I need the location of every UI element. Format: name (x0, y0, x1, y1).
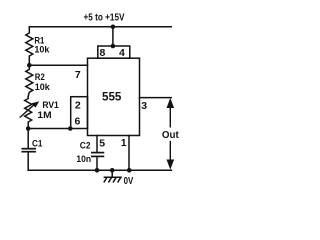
svg-text:10n: 10n (76, 154, 91, 165)
wire pin 7 (29, 64, 87, 66)
wire pin 5 with capacitor C2 (96, 136, 98, 153)
node RV1/C1 (26, 126, 31, 131)
svg-text:10k: 10k (34, 44, 50, 55)
svg-text:8: 8 (100, 47, 106, 59)
op 555 pins 8/4 box (98, 46, 130, 58)
capacitor C1 (27, 129, 29, 149)
svg-text:5: 5 (99, 138, 105, 150)
wire bottom 0V rail (28, 169, 171, 171)
resistor R2 (26, 65, 33, 96)
output arrow down (167, 141, 175, 170)
svg-text:4: 4 (119, 47, 125, 59)
wire pin 1 (128, 136, 130, 171)
ground stub (111, 170, 113, 177)
node R1/R2/pin7 (27, 63, 32, 68)
svg-text:555: 555 (102, 89, 122, 103)
svg-text:Out: Out (162, 129, 179, 141)
svg-text:1M: 1M (37, 110, 51, 121)
node supply junction (111, 25, 116, 30)
wire supply stub to pins 8 and 4 (112, 27, 114, 46)
node pin6 wire (68, 126, 73, 131)
node pin1/0V (127, 168, 132, 173)
pins 2/6 box (71, 97, 88, 129)
wire pin 3 output (140, 97, 172, 99)
wire top supply rail (29, 26, 171, 28)
svg-text:3: 3 (141, 100, 147, 112)
svg-text:0V: 0V (124, 176, 134, 187)
potentiometer RV1 wiper arrow (20, 101, 39, 117)
potentiometer RV1 (25, 96, 32, 128)
svg-text:+5 to +15V: +5 to +15V (84, 13, 125, 24)
node C2/0V (95, 168, 100, 173)
ground symbol 0V (104, 177, 122, 182)
svg-text:1: 1 (121, 137, 127, 149)
node ground (110, 168, 115, 173)
svg-text:2: 2 (75, 99, 81, 111)
op 555 IC body U1 (88, 58, 140, 135)
node pins 8/4 (111, 44, 116, 49)
resistor R1 (26, 27, 33, 65)
svg-text:C1: C1 (32, 138, 43, 149)
svg-text:7: 7 (75, 69, 81, 81)
svg-text:10k: 10k (35, 82, 51, 93)
output arrow up (167, 98, 175, 128)
wire RV1/C1 node to pin 6 box (28, 128, 70, 130)
svg-text:6: 6 (75, 116, 81, 128)
svg-text:C2: C2 (80, 141, 91, 152)
